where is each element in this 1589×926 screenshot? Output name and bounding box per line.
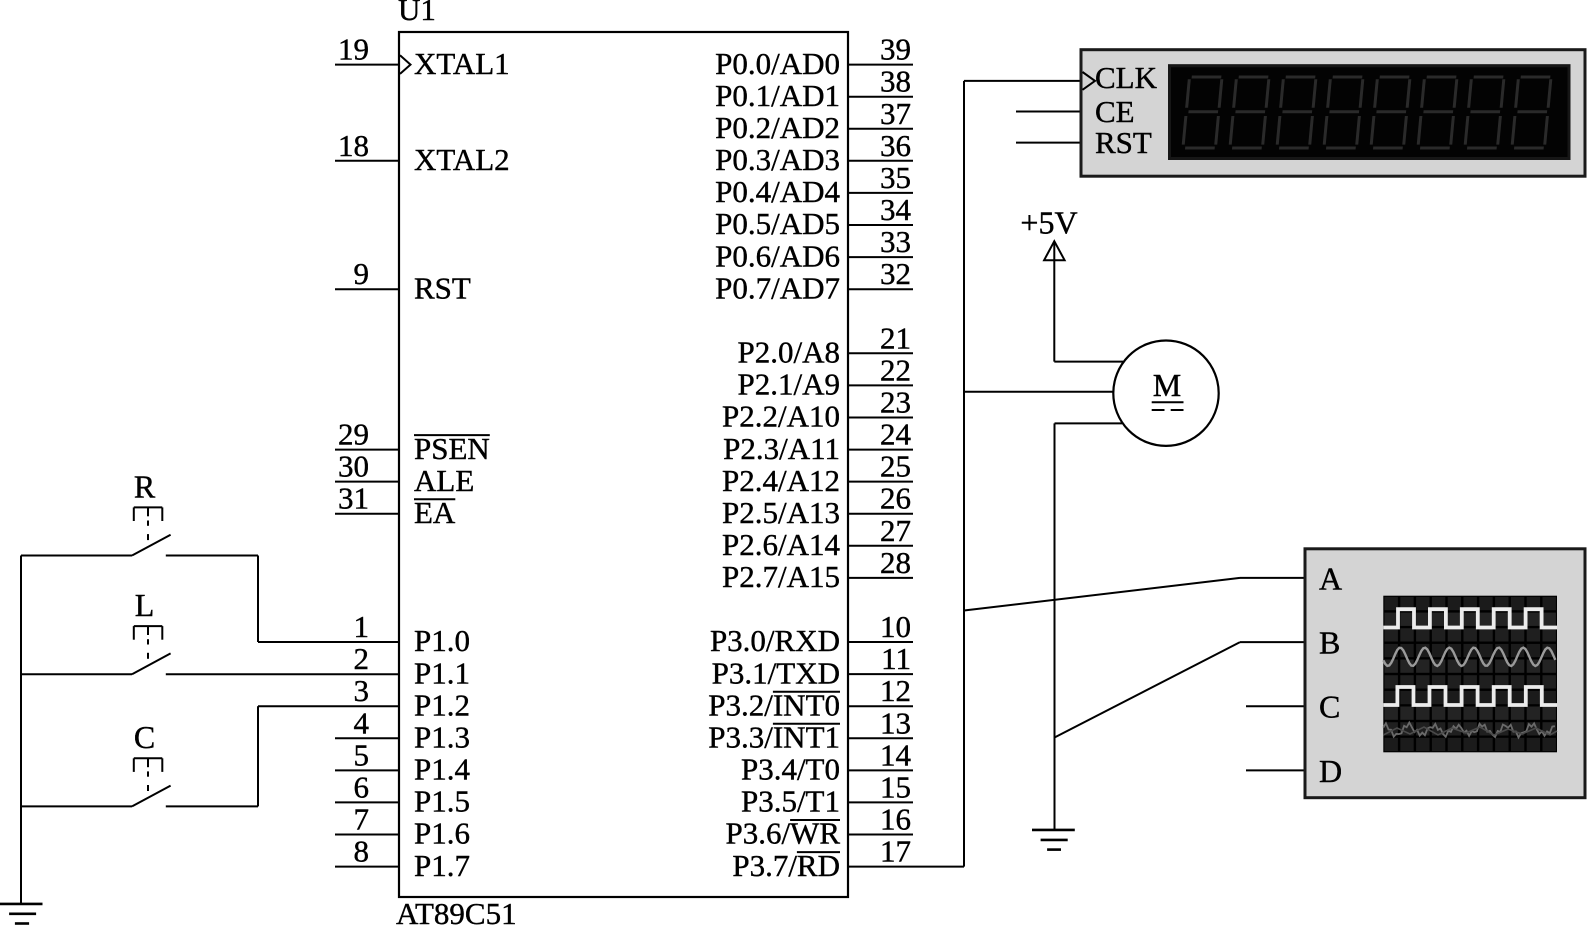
wire: CLK to display [964,80,1081,82]
svg-text:RST: RST [414,270,471,305]
wire: switch R to P1.0 (vert) [257,556,259,643]
U1 pin 31 EA [335,481,456,530]
svg-text:CLK: CLK [1095,60,1158,95]
U1 pin 28 P2.7/A15 [722,545,913,594]
wire: switch C to P1.2 (vert) [257,706,259,806]
svg-text:26: 26 [880,481,911,516]
svg-text:P0.5/AD5: P0.5/AD5 [715,206,840,241]
wire: scope channel A horizontal [1240,577,1305,579]
svg-text:P2.6/A14: P2.6/A14 [722,527,840,562]
wire: switch C to P1.2 (into pin 3) [258,705,399,707]
wire: +5V to motor top [1054,361,1123,363]
svg-text:P3.5/T1: P3.5/T1 [741,784,840,819]
U1 pin 30 ALE [335,449,474,498]
svg-text:P1.3: P1.3 [414,720,470,755]
svg-text:P2.2/A10: P2.2/A10 [722,399,840,434]
svg-text:35: 35 [880,160,911,195]
svg-text:14: 14 [880,737,912,772]
U1 pin 22 P2.1/A9 [738,352,914,401]
svg-text:P1.2: P1.2 [414,687,470,722]
wire: CE stub [1016,111,1081,113]
svg-text:27: 27 [880,513,911,548]
U1 pin 8 P1.7 [335,834,470,883]
svg-text:P1.6: P1.6 [414,816,470,851]
wire: scope channel C stub [1246,705,1305,707]
U1 pin 1 P1.0 [354,609,471,658]
U1 pin 24 P2.3/A11 [723,417,913,466]
svg-text:22: 22 [880,352,911,387]
display module (8-digit 7-segment) [1081,50,1585,177]
svg-text:P2.5/A13: P2.5/A13 [722,495,840,530]
svg-text:31: 31 [338,481,369,516]
svg-text:P0.6/AD6: P0.6/AD6 [715,238,840,273]
scope trace A (square wave) [1383,609,1557,627]
wire: motor bottom to ground (vert) [1054,423,1056,830]
svg-text:24: 24 [880,417,912,452]
U1 pin 36 P0.3/AD3 [715,128,913,177]
svg-text:7: 7 [354,802,370,837]
svg-text:P0.2/AD2: P0.2/AD2 [715,110,840,145]
U1 pin 38 P0.1/AD1 [715,64,913,113]
wire: scope channel D stub [1246,769,1305,771]
7-seg digit 1 [1181,76,1223,150]
svg-text:AT89C51: AT89C51 [396,896,517,926]
U1 pin 35 P0.4/AD4 [715,160,913,209]
push-button switch C [132,719,171,806]
svg-text:P1.7: P1.7 [414,848,470,883]
7-seg digit 4 [1322,76,1364,150]
svg-text:CE: CE [1095,94,1135,129]
U1 pin 13 P3.3/INT1 [708,705,913,754]
U1 pin 14 P3.4/T0 [741,737,913,786]
7-seg digit 8 [1510,76,1552,150]
7-seg digit 6 [1416,76,1458,150]
svg-text:P3.0/RXD: P3.0/RXD [710,623,840,658]
svg-text:23: 23 [880,385,911,420]
7-seg digit 5 [1369,76,1411,150]
motor M [1113,341,1218,446]
U1 pin 17 P3.7/RD [732,834,964,883]
7-seg digit 7 [1463,76,1505,150]
svg-text:U1: U1 [398,0,436,27]
U1 pin 33 P0.6/AD6 [715,224,913,273]
wire: P3.7/RD vertical bus (pin17 up to CLK) [963,81,965,867]
svg-text:P2.4/A12: P2.4/A12 [722,463,840,498]
U1 pin 34 P0.5/AD5 [715,192,913,241]
7-seg digit 3 [1275,76,1317,150]
ground symbol (left) [0,904,43,924]
svg-text:4: 4 [354,705,370,740]
7-seg digit 2 [1228,76,1270,150]
svg-text:P1.0: P1.0 [414,623,470,658]
svg-text:P0.3/AD3: P0.3/AD3 [715,142,840,177]
svg-text:P0.1/AD1: P0.1/AD1 [715,78,840,113]
svg-text:29: 29 [338,417,369,452]
U1 pin 23 P2.2/A10 [722,385,913,434]
svg-text:15: 15 [880,769,911,804]
wire: ground bus to switch L [21,673,132,675]
svg-text:10: 10 [880,609,911,644]
wire: RST stub [1016,142,1081,144]
svg-text:P1.5: P1.5 [414,784,470,819]
wire: switch R to P1.0 (into pin 1) [258,641,399,643]
svg-text:34: 34 [880,192,912,227]
svg-text:P1.1: P1.1 [414,655,470,690]
U1 pin 37 P0.2/AD2 [715,96,913,145]
svg-text:P2.1/A9: P2.1/A9 [738,367,841,402]
svg-text:13: 13 [880,705,911,740]
svg-text:5: 5 [354,737,370,772]
svg-text:+5V: +5V [1020,205,1077,241]
wire: scope channel B horizontal [1240,641,1305,643]
svg-text:ALE: ALE [414,463,474,498]
U1 pin 15 P3.5/T1 [741,769,913,818]
svg-text:12: 12 [880,673,911,708]
wire: scope channel A diagonal [964,578,1240,611]
power +5V [1020,205,1077,261]
U1 pin 3 P1.2 [354,673,471,722]
wire: switch C to P1.2 (horiz) [166,805,258,807]
svg-text:30: 30 [338,449,369,484]
U1 pin 6 P1.5 [335,769,470,818]
svg-text:39: 39 [880,32,911,67]
svg-text:33: 33 [880,224,911,259]
svg-text:P2.7/A15: P2.7/A15 [722,559,840,594]
svg-text:11: 11 [881,641,911,676]
U1 pin 39 P0.0/AD0 [715,32,913,81]
svg-text:L: L [135,587,155,623]
U1 pin 12 P3.2/INT0 [708,673,913,722]
svg-text:37: 37 [880,96,911,131]
wire: motor bottom to ground (horiz) [1055,422,1123,424]
oscilloscope [1305,549,1585,798]
U1 pin 7 P1.6 [335,802,470,851]
svg-text:C: C [1319,689,1340,725]
U1 pin 2 P1.1 [354,641,471,690]
U1 pin 19 XTAL1 [335,32,510,81]
svg-text:P2.3/A11: P2.3/A11 [723,431,840,466]
wire: scope channel B diagonal [1055,642,1241,737]
svg-text:6: 6 [354,769,370,804]
svg-text:C: C [134,719,155,755]
U1 pin 5 P1.4 [335,737,470,786]
U1 pin 9 RST [335,256,471,305]
U1 pin 4 P1.3 [335,705,470,754]
U1 pin 10 P3.0/RXD [710,609,913,658]
U1 pin 29 PSEN [335,417,490,466]
svg-text:25: 25 [880,449,911,484]
IC U1 AT89C51 body [399,32,848,897]
svg-text:P1.4: P1.4 [414,752,470,787]
wire: +5V stem down [1053,243,1055,362]
svg-text:P3.1/TXD: P3.1/TXD [712,655,840,690]
svg-text:RST: RST [1095,125,1152,160]
svg-text:1: 1 [354,609,370,644]
scope trace D (noisy wave) [1383,723,1555,738]
svg-text:18: 18 [338,128,369,163]
svg-text:2: 2 [354,641,370,676]
U1 pin 32 P0.7/AD7 [715,256,913,305]
U1 pin 27 P2.6/A14 [722,513,913,562]
U1 pin 11 P3.1/TXD [712,641,913,690]
svg-text:19: 19 [338,32,369,67]
wire: P3.7 bus to motor (middle) [964,391,1114,393]
svg-text:28: 28 [880,545,911,580]
svg-text:R: R [134,468,156,504]
svg-text:16: 16 [880,802,911,837]
svg-text:36: 36 [880,128,911,163]
svg-text:D: D [1319,753,1342,789]
svg-text:P0.0/AD0: P0.0/AD0 [715,46,840,81]
svg-text:8: 8 [354,834,370,869]
svg-text:A: A [1319,560,1342,596]
wire: left ground bus (vertical) [20,556,22,904]
svg-text:21: 21 [880,320,911,355]
U1 pin 26 P2.5/A13 [722,481,913,530]
ground symbol (right) [1032,830,1075,850]
scope trace B (sine wave) [1383,648,1555,666]
U1 pin 25 P2.4/A12 [722,449,913,498]
wire: ground bus to switch R [21,555,132,557]
svg-text:32: 32 [880,256,911,291]
U1 pin 21 P2.0/A8 [738,320,914,369]
svg-text:M: M [1153,367,1181,403]
svg-text:P0.7/AD7: P0.7/AD7 [715,270,840,305]
U1 pin 18 XTAL2 [335,128,510,177]
svg-text:3: 3 [354,673,370,708]
svg-text:P0.4/AD4: P0.4/AD4 [715,174,840,209]
wire: switch L to P1.1 (into pin 2) [166,673,399,675]
wire: ground bus to switch C [21,805,132,807]
svg-text:XTAL2: XTAL2 [414,142,510,177]
scope trace C (square wave) [1383,687,1557,705]
svg-text:17: 17 [880,834,911,869]
U1 pin 16 P3.6/WR [725,802,913,851]
push-button switch R [132,468,171,555]
svg-text:38: 38 [880,64,911,99]
push-button switch L [132,587,171,674]
wire: switch R to P1.0 (horiz) [166,555,258,557]
svg-text:XTAL1: XTAL1 [414,46,510,81]
svg-text:9: 9 [354,256,370,291]
svg-text:P3.4/T0: P3.4/T0 [741,752,840,787]
svg-text:P2.0/A8: P2.0/A8 [738,335,841,370]
svg-text:B: B [1319,625,1340,661]
